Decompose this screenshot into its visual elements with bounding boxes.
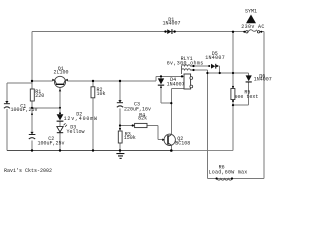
- svg-text:BC108: BC108: [175, 140, 190, 146]
- svg-text:100uF,25v: 100uF,25v: [38, 141, 65, 147]
- svg-text:2L100: 2L100: [53, 70, 68, 76]
- svg-text:1N4007: 1N4007: [167, 81, 185, 87]
- svg-text:6v,300 ohms: 6v,300 ohms: [167, 61, 204, 67]
- svg-text:Ravi's Ckts-2002: Ravi's Ckts-2002: [4, 168, 52, 174]
- svg-text:see text: see text: [234, 94, 258, 100]
- svg-text:220: 220: [35, 93, 44, 99]
- svg-text:220uF,16v: 220uF,16v: [124, 106, 151, 112]
- svg-text:150k: 150k: [124, 135, 136, 141]
- svg-text:10k: 10k: [97, 91, 106, 97]
- svg-text:1N4007: 1N4007: [205, 55, 225, 61]
- svg-text:Load,60W max: Load,60W max: [209, 170, 248, 176]
- svg-text:230v AC: 230v AC: [241, 24, 264, 30]
- svg-text:SYM1: SYM1: [245, 9, 257, 15]
- svg-text:12v,400mW: 12v,400mW: [64, 116, 98, 122]
- svg-text:100uF,25v: 100uF,25v: [11, 107, 38, 113]
- svg-text:Yellow: Yellow: [67, 129, 85, 135]
- svg-text:1N4007: 1N4007: [254, 77, 272, 83]
- svg-text:1N4007: 1N4007: [162, 21, 180, 27]
- svg-text:82k: 82k: [138, 116, 147, 122]
